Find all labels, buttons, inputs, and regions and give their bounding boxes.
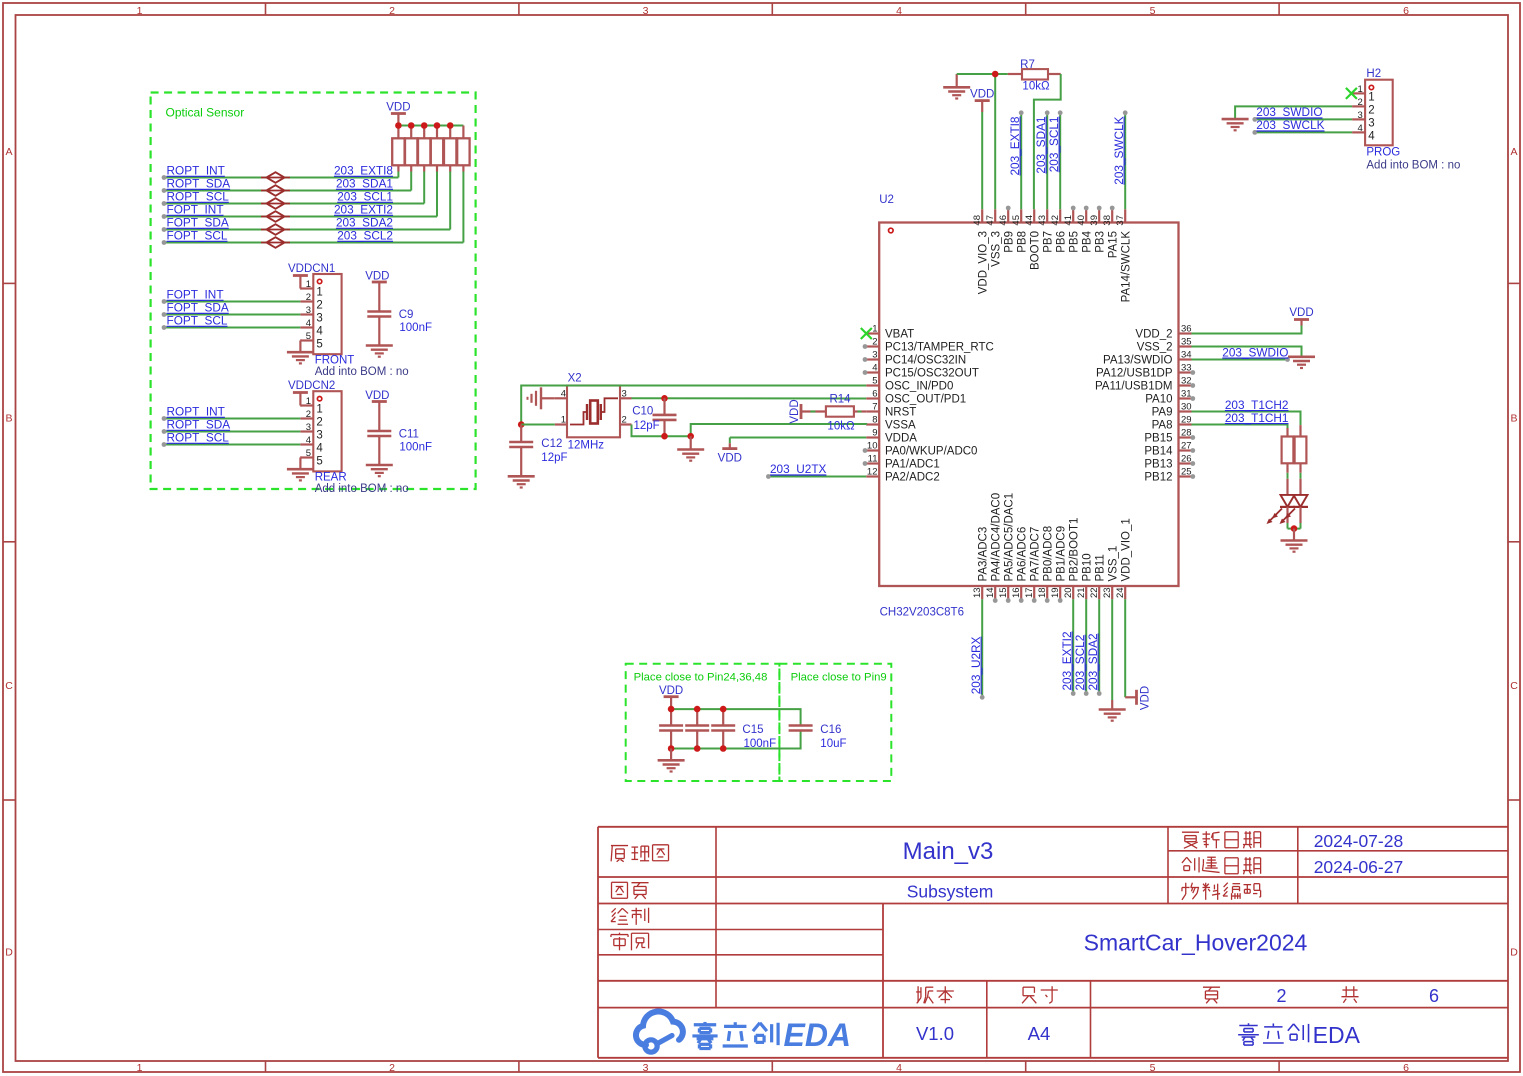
resistor RN4 (pull-up) <box>431 126 443 172</box>
svg-text:203_T1CH1: 203_T1CH1 <box>1225 411 1289 425</box>
svg-text:203_U2TX: 203_U2TX <box>770 462 827 476</box>
unconnected pin dot pin 46 <box>1006 206 1011 211</box>
svg-text:9: 9 <box>872 428 877 439</box>
svg-text:ROPT_INT: ROPT_INT <box>167 405 225 419</box>
title label chicun (size) <box>1023 986 1034 988</box>
pin 7 NRST of U2 <box>866 402 916 419</box>
svg-text:2: 2 <box>306 409 311 420</box>
ground at H2 pin 2 <box>1222 118 1249 121</box>
junction on VDD bus <box>395 122 402 129</box>
svg-text:100nF: 100nF <box>399 442 432 454</box>
pin 5 of VDDCN1 <box>300 331 323 351</box>
pin 17 PA7/ADC7 of U2 <box>1024 527 1041 600</box>
pin 5 of VDDCN2 <box>300 448 323 468</box>
pin 30 PA9 of U2 <box>1152 402 1192 419</box>
wire net 203_SWCLK at pin 37 <box>1123 110 1128 209</box>
svg-text:22: 22 <box>1089 587 1100 598</box>
title label yuanlitu (schematic) <box>611 845 628 847</box>
svg-text:ROPT_SCL: ROPT_SCL <box>167 190 230 204</box>
wire VDD bus to resistor array <box>398 125 463 127</box>
unconnected pin dot pin 41 <box>1071 206 1076 211</box>
ground at U2 VSS_2 pin 35 <box>1192 347 1316 369</box>
unconnected pin dot pin 2 <box>863 344 868 349</box>
svg-text:D: D <box>1510 947 1518 959</box>
pin 4 of VDDCN1 <box>300 318 323 338</box>
svg-text:ROPT_SDA: ROPT_SDA <box>167 418 231 432</box>
svg-text:16: 16 <box>1011 587 1022 598</box>
svg-text:C15: C15 <box>742 724 763 736</box>
pin 4 of VDDCN2 <box>300 435 323 455</box>
power flag VDD (pull-up array) <box>386 102 410 126</box>
svg-text:4: 4 <box>896 1062 902 1074</box>
svg-text:VDD: VDD <box>789 399 801 423</box>
svg-text:3: 3 <box>622 389 627 400</box>
svg-text:19: 19 <box>1050 587 1061 598</box>
svg-text:OSC_IN/PD0: OSC_IN/PD0 <box>885 381 953 393</box>
svg-text:VDD: VDD <box>970 89 994 101</box>
svg-text:6: 6 <box>1403 1062 1409 1074</box>
pin 4 PC15/OSC32OUT of U2 <box>866 363 979 380</box>
wire OSC_OUT net (X2 pin3 to pin 6) <box>632 397 867 399</box>
svg-text:10: 10 <box>867 441 878 452</box>
svg-text:C: C <box>1510 680 1518 692</box>
pin 13 PA3/ADC3 of U2 <box>972 527 989 600</box>
svg-text:100nF: 100nF <box>399 322 432 334</box>
unconnected pin dot pin 32 <box>1190 383 1195 388</box>
svg-text:1: 1 <box>306 279 311 290</box>
svg-text:3: 3 <box>1358 110 1363 121</box>
svg-text:PA8: PA8 <box>1152 420 1173 432</box>
connector H2 pin1 indicator <box>1369 85 1373 89</box>
svg-text:PB0/ADC8: PB0/ADC8 <box>1043 526 1055 582</box>
svg-text:34: 34 <box>1181 350 1192 361</box>
svg-text:5: 5 <box>872 376 877 387</box>
svg-text:1: 1 <box>137 1062 143 1074</box>
power flag VDD at U2 VDDA pin 9 <box>718 438 867 465</box>
svg-text:3: 3 <box>643 1062 649 1074</box>
title label create date <box>1182 857 1187 863</box>
pin 2 PC13/TAMPER_RTC of U2 <box>866 337 994 354</box>
svg-text:EDA: EDA <box>1313 1022 1361 1048</box>
ground at LEDs <box>1281 529 1308 552</box>
svg-text:4: 4 <box>316 443 323 455</box>
svg-text:PB14: PB14 <box>1144 446 1173 458</box>
wire decoupling bottom rail <box>671 731 801 749</box>
title label material code <box>1185 883 1187 894</box>
pin 42 PB6 of U2 <box>1050 209 1067 252</box>
pin 26 PB13 of U2 <box>1144 454 1191 471</box>
svg-text:PC14/OSC32IN: PC14/OSC32IN <box>885 355 966 367</box>
pin 28 PB15 of U2 <box>1144 428 1191 445</box>
pin 23 VSS_1 of U2 <box>1102 546 1119 600</box>
svg-text:PA13/SWDIO: PA13/SWDIO <box>1103 355 1172 367</box>
svg-text:2: 2 <box>1358 97 1363 108</box>
svg-text:OSC_OUT/PD1: OSC_OUT/PD1 <box>885 394 966 406</box>
svg-text:1: 1 <box>561 415 566 426</box>
svg-text:PA11/USB1DM: PA11/USB1DM <box>1095 381 1173 393</box>
svg-text:C10: C10 <box>632 405 653 417</box>
unconnected pin dot pin 18 <box>1045 598 1050 603</box>
pin 1 of H2 <box>1352 84 1375 104</box>
svg-text:12MHz: 12MHz <box>568 440 605 452</box>
connector VDDCN1 box <box>313 274 341 354</box>
pin 21 PB10 of U2 <box>1076 553 1093 599</box>
svg-text:BOOT0: BOOT0 <box>1030 231 1042 270</box>
pin 29 PA8 of U2 <box>1152 415 1192 432</box>
pin 48 VDD_VIO_3 of U2 <box>972 209 989 294</box>
junction bottom rail <box>694 745 701 752</box>
svg-text:PB2/BOOT1: PB2/BOOT1 <box>1069 518 1081 582</box>
svg-text:203_SCL1: 203_SCL1 <box>337 190 393 204</box>
title block grid <box>598 827 1508 1058</box>
svg-text:2: 2 <box>389 5 395 17</box>
connector VDDCN2 box <box>313 391 341 471</box>
unconnected pin dot pin 10 <box>863 448 868 453</box>
wire FOPT_SDA to VDDCN1 pin 3 <box>162 312 301 317</box>
pin 43 PB7 of U2 <box>1037 209 1054 252</box>
power flag VDD at U2 pin 48 <box>970 89 994 113</box>
svg-text:R14: R14 <box>829 393 851 405</box>
svg-text:PA12/USB1DP: PA12/USB1DP <box>1096 368 1173 380</box>
resistor RN3 (pull-up) <box>418 126 430 172</box>
wire net 203_EXTI8 at pin 45 <box>1019 110 1024 209</box>
svg-text:Add into BOM : no: Add into BOM : no <box>315 483 409 495</box>
title label gong (of) <box>1345 986 1347 996</box>
svg-text:SmartCar_Hover2024: SmartCar_Hover2024 <box>1084 930 1308 956</box>
wire LED cathodes to ground <box>1288 523 1301 529</box>
svg-text:U2: U2 <box>879 194 894 206</box>
resistor RN1 (pull-up) <box>392 126 404 172</box>
svg-text:PA10: PA10 <box>1145 394 1172 406</box>
resistor R7 10k BOOT0 pulldown <box>1008 69 1061 79</box>
svg-text:PB11: PB11 <box>1095 554 1107 581</box>
svg-text:R7: R7 <box>1020 59 1035 71</box>
capacitor C10 12pF <box>653 398 677 436</box>
svg-text:PB5: PB5 <box>1069 231 1081 253</box>
zone row ticks <box>3 283 1520 800</box>
svg-text:Place close to Pin9: Place close to Pin9 <box>791 672 887 684</box>
junction bottom rail <box>720 745 727 752</box>
svg-text:VBAT: VBAT <box>885 329 914 341</box>
ground at VDDCN2 pin 5 <box>287 458 314 481</box>
junction on VDD bus <box>447 122 454 129</box>
junction top rail <box>694 706 701 713</box>
pin 6 OSC_OUT/PD1 of U2 <box>866 389 966 406</box>
svg-text:VDDCN2: VDDCN2 <box>288 380 335 392</box>
pin 3 of VDDCN2 <box>300 422 323 442</box>
title label banben (version) <box>917 986 919 1002</box>
svg-text:5: 5 <box>1150 1062 1156 1074</box>
pin 2 of VDDCN1 <box>300 292 323 312</box>
svg-text:6: 6 <box>872 389 877 400</box>
pin 27 PB14 of U2 <box>1144 441 1191 458</box>
optical sensor region box <box>151 93 476 490</box>
svg-text:ROPT_SCL: ROPT_SCL <box>167 431 230 445</box>
svg-text:FRONT: FRONT <box>315 354 355 366</box>
svg-text:NRST: NRST <box>885 407 916 419</box>
net tie diamond on FOPT_INT <box>261 211 290 222</box>
unconnected pin dot pin 33 <box>1190 370 1195 375</box>
pin 35 VSS_2 of U2 <box>1137 337 1192 354</box>
svg-text:20: 20 <box>1063 587 1074 598</box>
wire net 203_SDA2 at pin 22 <box>1097 599 1102 696</box>
svg-text:2: 2 <box>389 1062 395 1074</box>
pin 3 of H2 <box>1352 110 1375 130</box>
LED D2 (T1CH2) <box>1280 479 1309 524</box>
svg-text:12pF: 12pF <box>634 420 660 432</box>
svg-text:VSS_2: VSS_2 <box>1137 342 1173 354</box>
svg-text:203_SWDIO: 203_SWDIO <box>1256 105 1322 119</box>
svg-text:3: 3 <box>306 305 311 316</box>
junction at GND/VSSA corner <box>687 433 694 440</box>
svg-text:FOPT_INT: FOPT_INT <box>167 203 224 217</box>
svg-text:B: B <box>1510 413 1517 425</box>
svg-text:VDD_2: VDD_2 <box>1135 329 1172 341</box>
connector VDDCN2 pin1 indicator <box>317 397 321 401</box>
svg-text:203_SWDIO: 203_SWDIO <box>1222 345 1288 359</box>
svg-text:48: 48 <box>972 215 983 226</box>
no-connect X on U2 pin 1 VBAT <box>861 328 872 339</box>
svg-text:FOPT_SCL: FOPT_SCL <box>167 229 228 243</box>
pin 10 PA0/WKUP/ADC0 of U2 <box>866 441 977 458</box>
svg-text:5: 5 <box>306 448 311 459</box>
ground at VDDCN1 pin 5 <box>287 341 314 364</box>
svg-text:FOPT_SCL: FOPT_SCL <box>167 314 228 328</box>
MCU U2 pin1 indicator <box>889 228 894 233</box>
svg-text:PB15: PB15 <box>1144 433 1172 445</box>
svg-text:PB4: PB4 <box>1082 230 1094 252</box>
svg-text:2: 2 <box>872 337 877 348</box>
wire net 203_U2TX at pin 12 <box>766 474 866 479</box>
svg-text:FOPT_INT: FOPT_INT <box>167 288 224 302</box>
unconnected pin dot pin 19 <box>1058 598 1063 603</box>
svg-text:11: 11 <box>868 454 878 465</box>
svg-text:100nF: 100nF <box>744 738 777 750</box>
svg-text:Place close to Pin24,36,48: Place close to Pin24,36,48 <box>634 672 768 684</box>
svg-text:A4: A4 <box>1028 1023 1051 1044</box>
svg-text:4: 4 <box>872 363 877 374</box>
svg-text:25: 25 <box>1181 467 1192 478</box>
title label update date <box>1182 831 1199 833</box>
svg-text:VDD: VDD <box>1140 686 1152 710</box>
no-connect X on H2 pin 1 <box>1346 88 1357 99</box>
svg-text:36: 36 <box>1181 324 1192 335</box>
MCU U2 CH32V203C8T6 body <box>879 223 1178 587</box>
unconnected pin dot pin 3 <box>863 357 868 362</box>
svg-text:2: 2 <box>1276 986 1286 1006</box>
svg-text:6: 6 <box>1403 5 1409 17</box>
svg-text:2: 2 <box>316 300 322 312</box>
svg-text:45: 45 <box>1011 215 1022 226</box>
svg-text:PA2/ADC2: PA2/ADC2 <box>885 472 940 484</box>
wire net 203_SWDIO at pin 34 <box>1192 357 1290 362</box>
wire net FOPT_SDA/203_SDA2 <box>162 171 451 232</box>
svg-text:PA15: PA15 <box>1108 231 1120 258</box>
svg-text:C16: C16 <box>820 724 841 736</box>
power flag VDD at U2 pin 24 (rotated) <box>1125 599 1151 710</box>
unconnected pin dot pin 27 <box>1190 448 1195 453</box>
svg-text:VDD: VDD <box>659 685 683 697</box>
svg-text:PA14/SWCLK: PA14/SWCLK <box>1121 231 1133 303</box>
svg-text:FOPT_SDA: FOPT_SDA <box>167 301 229 315</box>
svg-text:VDD_VIO_3: VDD_VIO_3 <box>978 231 990 294</box>
connector H2 box <box>1365 80 1393 146</box>
pin 18 PB0/ADC8 of U2 <box>1037 526 1054 599</box>
svg-text:1: 1 <box>1368 92 1374 104</box>
net tie diamond on ROPT_SDA <box>261 185 290 196</box>
svg-text:203_T1CH2: 203_T1CH2 <box>1225 398 1289 412</box>
wire net 203_EXTI2 at pin 20 <box>1071 599 1076 696</box>
unconnected pin dot pin 26 <box>1190 461 1195 466</box>
svg-text:PC15/OSC32OUT: PC15/OSC32OUT <box>885 368 979 380</box>
wire net 203_SDA1 at pin 43 <box>1045 110 1050 209</box>
wire net FOPT_SCL/203_SCL2 <box>162 171 464 245</box>
ground at decoupling caps <box>658 749 685 772</box>
ground at C11 <box>366 464 393 467</box>
pin 24 VDD_VIO_1 of U2 <box>1115 518 1132 599</box>
svg-text:2024-06-27: 2024-06-27 <box>1314 857 1404 877</box>
svg-text:3: 3 <box>872 350 877 361</box>
power flag VDD at VDDCN2 pin 1 <box>293 393 308 406</box>
pin 46 PB9 of U2 <box>998 209 1015 252</box>
svg-text:6: 6 <box>1429 986 1439 1006</box>
svg-text:33: 33 <box>1181 363 1192 374</box>
wire R-LED2 to LED2 <box>1300 473 1302 479</box>
unconnected pin dot pin 17 <box>1032 598 1037 603</box>
pin 44 BOOT0 of U2 <box>1024 209 1041 270</box>
pin 12 PA2/ADC2 of U2 <box>866 467 940 484</box>
junction bottom rail <box>668 745 675 752</box>
svg-text:26: 26 <box>1181 454 1192 465</box>
svg-text:2: 2 <box>622 415 627 426</box>
svg-text:1: 1 <box>316 404 322 416</box>
pin 37 PA14/SWCLK of U2 <box>1115 209 1132 302</box>
svg-text:VDDCN1: VDDCN1 <box>288 263 335 275</box>
junction at LED cathode node <box>1291 525 1298 532</box>
svg-text:3: 3 <box>1368 118 1374 130</box>
wire net 203_SCL1 at pin 42 <box>1058 110 1063 209</box>
svg-text:PA5/ADC5/DAC1: PA5/ADC5/DAC1 <box>1004 493 1016 582</box>
unconnected pin dot pin 40 <box>1084 206 1089 211</box>
svg-text:21: 21 <box>1076 587 1087 598</box>
svg-text:V1.0: V1.0 <box>916 1023 954 1044</box>
power flag VDD at C11 <box>365 390 389 431</box>
net tie diamond on FOPT_SDA <box>261 224 290 235</box>
junction top rail <box>668 706 675 713</box>
svg-text:ROPT_INT: ROPT_INT <box>167 164 225 178</box>
wire X2 pin2 to VSSA/GND rail <box>632 424 867 436</box>
pin 31 PA10 of U2 <box>1145 389 1191 406</box>
pin 19 PB1/ADC9 of U2 <box>1050 526 1067 599</box>
wire GND to R7 and pin 47 <box>957 74 1008 209</box>
pin 38 PA15 of U2 <box>1102 209 1119 258</box>
net tie diamond on ROPT_SCL <box>261 198 290 209</box>
wire X2 pin1 to junction <box>521 424 555 426</box>
svg-text:H2: H2 <box>1366 68 1381 80</box>
svg-text:17: 17 <box>1024 587 1035 598</box>
pin 1 of VDDCN2 <box>300 396 323 416</box>
title label ye (page) <box>1203 986 1220 988</box>
pin 14 PA4/ADC4/DAC0 of U2 <box>985 493 1002 599</box>
svg-text:14: 14 <box>985 587 996 598</box>
svg-text:PA4/ADC4/DAC0: PA4/ADC4/DAC0 <box>991 493 1003 582</box>
svg-text:X2: X2 <box>568 373 582 385</box>
svg-text:42: 42 <box>1050 215 1061 226</box>
svg-text:18: 18 <box>1037 587 1048 598</box>
logo JLCEDA text <box>692 1017 851 1053</box>
svg-text:EDA: EDA <box>783 1017 851 1053</box>
svg-text:27: 27 <box>1181 441 1192 452</box>
svg-text:4: 4 <box>896 5 902 17</box>
svg-text:4: 4 <box>316 326 323 338</box>
pin 4 of H2 <box>1352 123 1375 143</box>
svg-text:30: 30 <box>1181 402 1192 413</box>
pin 15 PA5/ADC5/DAC1 of U2 <box>998 493 1015 599</box>
svg-text:203_SCL2: 203_SCL2 <box>337 229 393 243</box>
svg-text:37: 37 <box>1115 215 1126 226</box>
title label huizhi (drawn by) <box>612 908 616 912</box>
svg-text:15: 15 <box>998 587 1009 598</box>
svg-text:44: 44 <box>1024 215 1035 226</box>
svg-text:PA9: PA9 <box>1152 407 1173 419</box>
svg-text:PB13: PB13 <box>1144 459 1172 471</box>
junction top rail <box>720 706 727 713</box>
wire ROPT_SCL to VDDCN2 pin 4 <box>162 442 301 447</box>
LED D1 (T1CH1) <box>1267 479 1296 524</box>
wire FOPT_INT to VDDCN1 pin 2 <box>162 299 301 304</box>
svg-text:PB3: PB3 <box>1095 231 1107 253</box>
wire net ROPT_INT/203_EXTI8 <box>162 171 399 180</box>
svg-text:Optical Sensor: Optical Sensor <box>166 106 245 120</box>
svg-text:ROPT_SDA: ROPT_SDA <box>167 177 231 191</box>
svg-text:35: 35 <box>1181 337 1192 348</box>
svg-text:39: 39 <box>1089 215 1100 226</box>
pin 16 PA6/ADC6 of U2 <box>1011 527 1028 600</box>
wire FOPT_SCL to VDDCN1 pin 4 <box>162 325 301 330</box>
resistor RN5 (pull-up) <box>444 126 456 172</box>
svg-text:1: 1 <box>306 396 311 407</box>
svg-text:PA1/ADC1: PA1/ADC1 <box>885 459 940 471</box>
resistor R14 10k NRST pull-up <box>789 399 866 423</box>
junction on VDD bus <box>421 122 428 129</box>
power flag VDD at VDDCN1 pin 1 <box>293 276 308 289</box>
ground at C9 <box>366 344 393 347</box>
wire H2 pin2 to ground <box>1235 106 1352 119</box>
junction on VDD bus <box>408 122 415 129</box>
svg-text:PC13/TAMPER_RTC: PC13/TAMPER_RTC <box>885 342 994 354</box>
svg-text:VDDA: VDDA <box>885 433 917 445</box>
svg-text:8: 8 <box>872 415 877 426</box>
unconnected pin dot pin 39 <box>1097 206 1102 211</box>
svg-text:PA3/ADC3: PA3/ADC3 <box>978 527 990 582</box>
svg-text:Add into BOM : no: Add into BOM : no <box>315 366 409 378</box>
capacitor C16 10uF <box>789 726 813 731</box>
connector VDDCN1 pin1 indicator <box>317 279 321 283</box>
svg-text:12pF: 12pF <box>541 452 567 464</box>
svg-text:4: 4 <box>306 435 311 446</box>
svg-text:VSSA: VSSA <box>885 420 916 432</box>
pin 11 PA1/ADC1 of U2 <box>866 454 940 471</box>
svg-text:13: 13 <box>972 587 983 598</box>
svg-text:VDD: VDD <box>718 453 742 465</box>
svg-text:A: A <box>1510 146 1517 158</box>
svg-text:PB10: PB10 <box>1082 553 1094 581</box>
unconnected pin dot pin 28 <box>1190 435 1195 440</box>
unconnected pin dot pin 4 <box>863 370 868 375</box>
svg-text:B: B <box>5 413 12 425</box>
svg-text:10kΩ: 10kΩ <box>827 420 855 432</box>
svg-text:1: 1 <box>316 287 322 299</box>
